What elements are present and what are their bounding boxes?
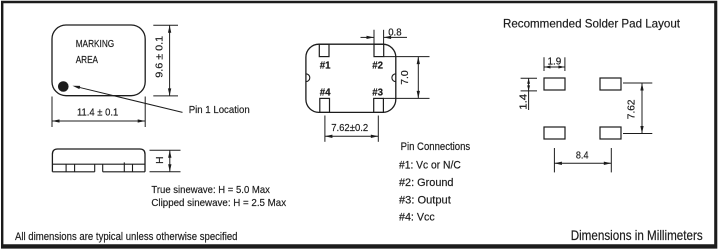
dim H arrow down [168, 164, 171, 172]
dim 8.4 extension line right [610, 148, 612, 172]
svg-text:Pin 1 Location: Pin 1 Location [189, 105, 250, 116]
pad 3 (bottom-right) [374, 98, 384, 112]
dim 7.62 pads line [641, 83, 643, 134]
side view pad divider 4 [102, 164, 104, 172]
dim 7.62 arrow left [325, 135, 333, 138]
svg-text:#2: Ground: #2: Ground [399, 177, 454, 189]
svg-text:Clipped sinewave: H = 2.5 Max: Clipped sinewave: H = 2.5 Max [151, 198, 286, 209]
dim 8.4 arrow right [604, 162, 612, 165]
dim 0.8 extension line left [373, 30, 375, 44]
svg-text:8.4: 8.4 [576, 151, 589, 162]
dim 7.62 extension line right [377, 116, 379, 142]
svg-text:AREA: AREA [76, 55, 99, 66]
leader arrowhead [73, 86, 81, 89]
svg-text:1.4: 1.4 [518, 94, 529, 110]
svg-text:7.62: 7.62 [627, 99, 638, 119]
dim H extension line top [150, 149, 181, 151]
svg-text:#4: Vcc: #4: Vcc [399, 212, 435, 224]
svg-text:Pin Connections: Pin Connections [401, 141, 471, 153]
side view pad bottom left segment [52, 171, 94, 173]
dim 11.4 line [52, 120, 145, 122]
package top view outline [52, 25, 145, 96]
dim 1.4 line [528, 78, 530, 110]
svg-text:#1: #1 [320, 61, 331, 72]
svg-text:#3: #3 [372, 87, 383, 98]
dim 7.0 arrow up [417, 57, 420, 65]
dim 7.62 extension line left [324, 116, 326, 142]
dim 0.8 arrow right-pointing [367, 36, 375, 39]
dim 1.4 extension line bottom [521, 90, 537, 92]
pad 1 (top-left) [319, 44, 329, 56]
pin 1 dot [58, 81, 69, 92]
dim 7.62 arrow right [371, 135, 379, 138]
dim 7.0 line [417, 57, 419, 99]
dim H arrow up [168, 150, 171, 158]
pad 4 (bottom-left) [320, 98, 330, 112]
dim 8.4 line [554, 162, 611, 164]
svg-text:#2: #2 [372, 61, 383, 72]
dim 1.4 arrow down [527, 85, 530, 91]
dim 0.8 left leader [361, 36, 375, 38]
right castellation notch [392, 74, 396, 82]
dim 11.4 extension line left [51, 97, 53, 128]
dim 1.9 arrow right [558, 66, 565, 69]
dim 1.9 arrow left [544, 66, 551, 69]
solder pad top-left [544, 78, 565, 90]
dim 1.9 extension line right [564, 57, 566, 71]
dim 0.8 right leader [384, 36, 407, 38]
left castellation notch [306, 74, 310, 82]
dim 7.0 extension line top [384, 56, 430, 58]
svg-text:MARKING: MARKING [76, 39, 115, 50]
dim 9.6 line [169, 25, 171, 96]
side view seam line [52, 163, 145, 165]
dim 7.62 pads arrow down [640, 126, 643, 134]
package bottom view outline [306, 44, 396, 112]
svg-text:0.8: 0.8 [388, 27, 402, 38]
side view pad divider 5 [123, 162, 125, 171]
dim 11.4 arrow left [52, 119, 60, 122]
dim H line [169, 150, 171, 172]
dim 11.4 extension line right [144, 97, 146, 128]
dim 8.4 arrow left [554, 162, 562, 165]
svg-text:Recommended Solder Pad Layout: Recommended Solder Pad Layout [503, 17, 681, 30]
side view pad divider 3 [94, 164, 96, 172]
dim 8.4 extension line left [553, 148, 555, 172]
dim 1.4 extension line top [521, 77, 537, 79]
leader line to pin 1 [79, 87, 183, 112]
dim 11.4 arrow right [138, 119, 146, 122]
dim 1.9 extension line left [543, 57, 545, 71]
pad 2 (top-right) [374, 44, 384, 56]
svg-text:#3: Output: #3: Output [399, 194, 451, 206]
svg-text:9.6 ± 0.1: 9.6 ± 0.1 [155, 36, 166, 78]
side view pad bottom right segment [103, 171, 145, 173]
svg-text:11.4 ± 0.1: 11.4 ± 0.1 [77, 108, 119, 119]
dim 9.6 arrow up [168, 25, 171, 33]
dim 0.8 arrow left-pointing [384, 36, 392, 39]
dim 9.6 extension line top [153, 24, 178, 26]
dim 0.8 extension line right [383, 30, 385, 44]
solder pad top-right [600, 78, 621, 90]
package side view outline [52, 149, 145, 172]
side view pad divider 6 [132, 164, 134, 172]
svg-text:7.0: 7.0 [400, 70, 411, 85]
dim 1.4 arrow up [527, 78, 530, 84]
svg-text:True sinewave: H = 5.0 Max: True sinewave: H = 5.0 Max [151, 185, 270, 196]
dim 7.0 extension line bottom [384, 97, 430, 99]
dim 7.62 pads extension line bottom [623, 133, 652, 135]
svg-text:#1: Vc or N/C: #1: Vc or N/C [399, 160, 461, 172]
solder pad bottom-right [600, 127, 621, 139]
dim 7.0 arrow down [417, 91, 420, 99]
svg-text:#4: #4 [320, 87, 331, 98]
dim 9.6 arrow down [168, 88, 171, 96]
dim 9.6 extension line bottom [153, 95, 178, 97]
svg-text:All dimensions are typical unl: All dimensions are typical unless otherw… [15, 231, 238, 243]
side view pad divider 2 [74, 164, 76, 172]
dim H extension line bottom [150, 171, 181, 173]
svg-text:1.9: 1.9 [548, 56, 562, 67]
solder pad bottom-left [544, 127, 565, 139]
dim 7.62 line [325, 135, 378, 137]
dim 7.62 pads arrow up [640, 83, 643, 91]
svg-text:Dimensions in Millimeters: Dimensions in Millimeters [571, 228, 703, 243]
dim 1.9 line [544, 66, 565, 68]
dim 7.62 pads extension line top [623, 82, 652, 84]
side view pad divider 1 [65, 164, 67, 172]
svg-text:H: H [155, 156, 166, 163]
svg-text:7.62±0.2: 7.62±0.2 [331, 123, 368, 134]
